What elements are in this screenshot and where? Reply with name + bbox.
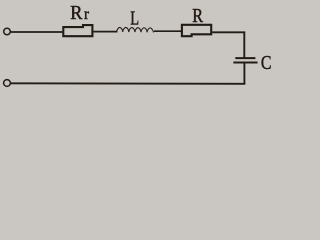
svg-text:R: R xyxy=(70,2,82,24)
resistor Rr xyxy=(63,25,92,36)
svg-text:r: r xyxy=(84,6,90,23)
svg-text:L: L xyxy=(130,7,139,29)
wire right vertical upper xyxy=(243,32,245,58)
svg-text:R: R xyxy=(192,6,203,27)
wire Rf to L xyxy=(93,31,117,33)
terminal (bottom-left) xyxy=(4,80,11,87)
wire right vertical lower xyxy=(243,64,245,85)
inductor L xyxy=(117,27,154,32)
resistor R xyxy=(182,25,211,36)
wire top-left xyxy=(10,31,63,33)
wire bottom xyxy=(11,82,246,85)
capacitor C xyxy=(235,57,255,59)
terminal (top-left) xyxy=(4,28,11,35)
wire R to corner xyxy=(212,31,245,33)
svg-text:C: C xyxy=(261,52,272,74)
wire L to R xyxy=(154,30,182,32)
